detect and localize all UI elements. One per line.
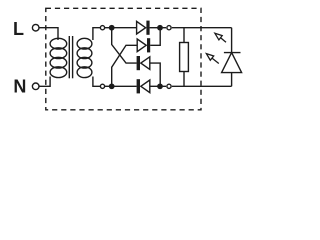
connector circle bottom AC: [100, 84, 104, 88]
wire top junction down-cross to D3: [112, 28, 137, 63]
wire D2 cathode up to plus junction: [150, 28, 160, 46]
node plus junction: [157, 25, 163, 31]
transformer core: [69, 36, 72, 78]
wire secondary top to AC node A: [93, 28, 100, 40]
wire plus connector to LED corner: [172, 27, 232, 29]
connector circle plus: [167, 26, 171, 30]
node bottom AC junction: [109, 83, 115, 89]
wire minus junction to connector: [163, 85, 167, 87]
wire resistor top lead: [183, 28, 185, 43]
wire LED top lead: [231, 28, 233, 53]
wire D1 cathode to plus junction: [150, 27, 158, 29]
wire N terminal to primary bottom: [39, 77, 50, 87]
svg-text:L: L: [13, 19, 24, 39]
dashed enclosure border: [46, 8, 201, 110]
wire minus connector to LED bottom corner: [172, 85, 232, 87]
wire plus junction to connector: [163, 27, 167, 29]
wire D3 anode down to minus junction: [150, 63, 160, 86]
LED emission arrow 1: [215, 33, 226, 42]
wire top AC circle to junction: [105, 27, 110, 29]
diode D3: [137, 56, 150, 70]
wire bottom junction up-cross to D2: [112, 45, 138, 86]
wire D4 anode to minus junction: [150, 85, 158, 87]
LED triangle: [222, 53, 242, 73]
resistor R1: [180, 43, 189, 72]
wire LED bottom lead: [231, 73, 233, 87]
terminal L: [32, 24, 39, 31]
wire resistor bottom lead: [183, 72, 185, 87]
svg-text:N: N: [13, 77, 26, 97]
diode D2: [137, 38, 150, 52]
LED emission arrow 2: [206, 54, 218, 64]
wire L terminal to primary top: [39, 28, 58, 40]
diode D4: [137, 79, 150, 93]
transformer primary winding T1: [50, 38, 67, 77]
wire bottom rail junction to D4: [112, 85, 137, 87]
node minus junction: [157, 83, 163, 89]
diode D1: [137, 21, 150, 35]
connector circle minus: [167, 84, 171, 88]
wire bottom AC circle to junction: [105, 85, 110, 87]
LED cathode bar: [224, 52, 241, 54]
terminal N: [32, 83, 39, 90]
node top AC junction: [109, 25, 115, 31]
wire top rail junction to D1: [112, 27, 137, 29]
connector circle top AC: [100, 26, 104, 30]
transformer secondary winding T1: [77, 38, 92, 77]
wire secondary bottom to AC node B: [93, 77, 100, 87]
